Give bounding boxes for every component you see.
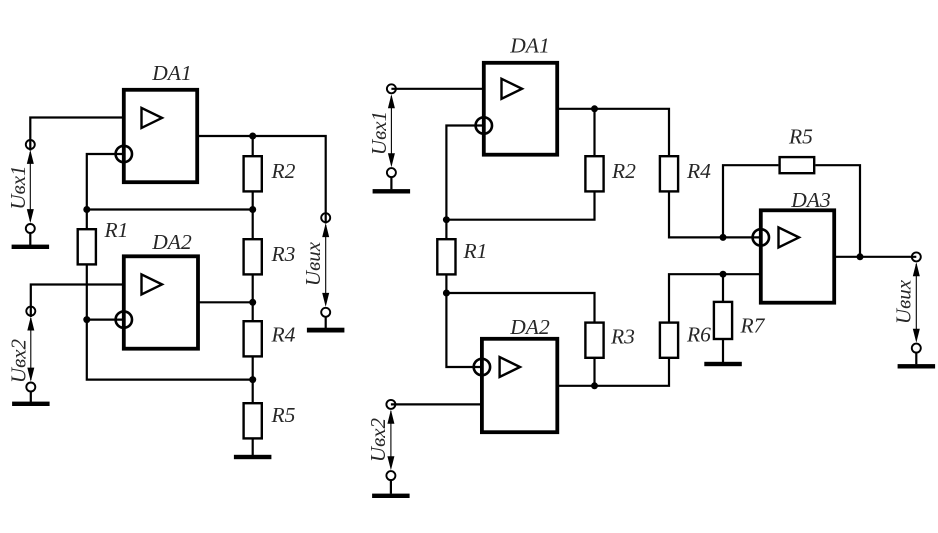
node: DA3 non-inverting / R7 junction — [720, 271, 727, 278]
resistor R1 — [78, 229, 96, 264]
svg-text:DA1: DA1 — [509, 34, 549, 58]
wire: DA2 output to R6 bottom — [559, 359, 670, 386]
terminal Uвх1 (voltage source arrow pair) — [26, 140, 35, 233]
ground (Uвх1 right) — [373, 177, 411, 194]
wire: R1 bottom lead — [445, 276, 447, 294]
op-amp DA1 — [116, 90, 198, 182]
wire: R3 bottom lead — [252, 276, 254, 303]
svg-text:R4: R4 — [686, 159, 711, 183]
wire: Uвх2 terminal to DA2 non-inverting input — [31, 285, 123, 318]
op-amp DA1 (right) — [476, 63, 558, 155]
wire: R5 right lead to output — [815, 165, 860, 257]
svg-text:Uвх2: Uвх2 — [366, 417, 390, 462]
ground (R7) — [704, 362, 742, 366]
wire: R3 top lead — [252, 210, 254, 239]
wire: R5 top lead — [252, 380, 254, 402]
ground (Uвх1) — [12, 233, 50, 249]
resistor R5 (horizontal) — [780, 157, 815, 173]
wire: R1 bottom lead to DA2 inv node — [86, 266, 88, 320]
wire: R7 bottom lead to ground — [722, 339, 724, 362]
wire: DA1 inverting input to left bus — [87, 154, 123, 210]
wire: R1 top lead — [445, 220, 447, 238]
wire: R5 bottom lead to ground — [252, 440, 254, 456]
resistor R4 (right) — [660, 156, 678, 191]
svg-text:DA2: DA2 — [509, 315, 550, 339]
node: R1 bottom junction (right) — [443, 290, 450, 297]
ground (R5) — [234, 455, 272, 459]
wire: R4 top lead — [252, 302, 254, 320]
ground (Uвих right) — [898, 352, 936, 368]
wire: R1 top lead — [86, 210, 88, 229]
svg-text:R2: R2 — [271, 159, 296, 183]
svg-text:DA2: DA2 — [151, 230, 192, 254]
wire: DA1 output rail to R4 — [558, 109, 669, 155]
wire: DA2 output to R3/R4 node — [199, 301, 253, 303]
op-amp DA2 — [116, 256, 198, 348]
node: DA2 inverting junction — [83, 316, 90, 323]
ground (Uвих left) — [307, 317, 345, 333]
resistor R3 — [244, 239, 262, 274]
node: DA1 output / R2 junction — [249, 133, 256, 140]
terminal Uвх1 (right) — [387, 84, 396, 177]
wire: DA2 inverting input branch — [87, 319, 123, 321]
ground (Uвх2) — [12, 391, 50, 406]
wire: R4 bottom lead — [252, 358, 254, 380]
svg-text:R7: R7 — [740, 314, 766, 338]
resistor R2 — [244, 156, 262, 191]
node: left bus junction — [83, 206, 90, 213]
svg-text:Uвих: Uвих — [892, 279, 916, 324]
svg-text:Uвх1: Uвх1 — [367, 111, 391, 155]
svg-text:R5: R5 — [271, 403, 296, 427]
wire: R2 bottom to left rail — [446, 193, 594, 220]
wire: horizontal rail inv-bus to R2/R3 node — [87, 208, 253, 210]
svg-text:R1: R1 — [104, 218, 129, 242]
resistor R4 — [244, 321, 262, 356]
svg-text:R3: R3 — [610, 325, 635, 349]
resistor R1 (right) — [437, 239, 455, 274]
op-amp DA2 (right) — [474, 339, 558, 432]
node: DA3 output / R5 junction — [857, 253, 864, 260]
wire: R2 top lead — [593, 109, 595, 155]
resistor R6 — [660, 323, 678, 358]
svg-text:Uвх2: Uвх2 — [7, 338, 31, 383]
ground (Uвх2 right) — [372, 480, 410, 498]
svg-text:DA3: DA3 — [790, 188, 830, 212]
wire: R5 left lead — [723, 165, 778, 237]
resistor R7 — [714, 302, 732, 339]
svg-text:Uвих: Uвих — [301, 241, 325, 286]
svg-text:R3: R3 — [271, 242, 296, 266]
svg-text:R4: R4 — [271, 323, 296, 347]
node: DA2 output / R3 junction (right) — [591, 382, 598, 389]
wire: DA2 inverting input branch — [446, 293, 481, 367]
node: DA2 output / R3-R4 junction — [249, 299, 256, 306]
wire: R7 top lead — [722, 274, 724, 302]
wire: R4 bottom to DA3 inverting input — [669, 193, 760, 238]
svg-text:R6: R6 — [686, 323, 711, 347]
resistor R5 — [244, 403, 262, 438]
svg-text:R1: R1 — [463, 239, 488, 263]
terminal Uвх2 (right) — [386, 400, 395, 480]
wire: R3 bottom lead — [593, 359, 595, 386]
op-amp DA3 — [753, 210, 835, 302]
node: DA1 output / R2 junction (right) — [591, 105, 598, 112]
wire: R6 top to DA3 non-inverting rail — [669, 274, 760, 321]
wire: R2 top lead — [252, 136, 254, 155]
wire: DA1 output rail to Uвих terminal — [198, 136, 326, 224]
svg-text:R5: R5 — [788, 125, 813, 149]
resistor R2 (right) — [585, 156, 603, 191]
terminal Uвих (right output) — [912, 252, 921, 352]
svg-text:R2: R2 — [611, 159, 636, 183]
svg-text:Uвх1: Uвх1 — [6, 165, 30, 209]
node: inv rail junction (right) — [443, 216, 450, 223]
wire: Uвх1 terminal to DA1 non-inverting input — [391, 88, 483, 90]
node: R4-R5 feedback junction — [249, 376, 256, 383]
node: DA3 inverting / R5 junction — [720, 234, 727, 241]
wire: rail to R3 top — [446, 293, 594, 322]
svg-text:DA1: DA1 — [151, 61, 191, 85]
wire: DA1 inverting input down to rail — [446, 126, 483, 220]
terminal Uвх2 (voltage source arrow pair) — [26, 307, 35, 392]
wire: Uвх2 terminal to DA2 non-inverting input — [391, 403, 481, 405]
terminal Uвих (left output) — [321, 213, 330, 317]
wire: Uвх1 terminal to DA1 non-inverting input — [30, 118, 123, 151]
wire: feedback down and right to R4/R5 node — [87, 320, 253, 380]
wire: DA3 output to Uвих terminal — [835, 256, 916, 258]
resistor R3 (right) — [585, 323, 603, 358]
node: inv rail / R2-R3 junction — [249, 206, 256, 213]
wire: R2 bottom lead — [252, 193, 254, 210]
